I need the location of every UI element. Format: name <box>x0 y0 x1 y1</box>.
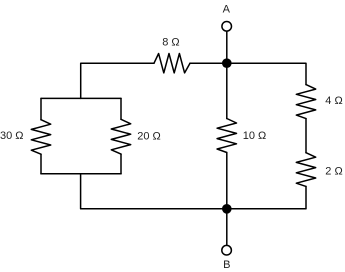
junction node B (solder dot) <box>222 204 232 214</box>
terminal B circle <box>222 245 232 255</box>
wire top lead of 30-ohm <box>40 98 42 119</box>
wire from 8-ohm right end to node A junction <box>190 62 227 64</box>
svg-text:8 Ω: 8 Ω <box>162 37 179 49</box>
svg-text:30 Ω: 30 Ω <box>0 130 23 142</box>
resistor R 4 ohm (vertical) <box>296 85 315 119</box>
resistor R 2 ohm (vertical) <box>296 153 315 187</box>
svg-text:2 Ω: 2 Ω <box>325 166 342 178</box>
wire top lead of 10-ohm from node A junction <box>226 63 228 118</box>
wire bottom lead of 30-ohm <box>40 154 42 174</box>
wire bottom lead of 20-ohm <box>120 154 122 174</box>
resistor R 20 ohm (vertical) <box>111 119 130 154</box>
wire parallel top bus <box>41 97 121 99</box>
wire parallel bottom bus <box>41 173 121 175</box>
wire from 8-ohm left end to top-left corner down to parallel top bus <box>81 63 154 98</box>
wire from 2-ohm bottom to bottom-right corner to node B junction <box>227 186 306 208</box>
svg-text:B: B <box>223 259 230 271</box>
junction node A (solder dot) <box>222 58 232 68</box>
wire from node A junction to top-right corner down to 4-ohm top <box>227 63 306 84</box>
wire from terminal A circle down to node A junction <box>226 32 228 64</box>
resistor R 30 ohm (vertical) <box>31 120 50 155</box>
terminal A circle <box>222 22 232 32</box>
svg-text:A: A <box>223 4 231 16</box>
svg-text:20 Ω: 20 Ω <box>137 131 161 143</box>
wire top lead of 20-ohm <box>120 98 122 119</box>
wire bottom lead of 10-ohm to node B junction <box>226 153 228 209</box>
svg-text:4 Ω: 4 Ω <box>325 95 342 107</box>
wire from node B junction to bottom-left corner up to parallel bottom bus <box>81 174 227 209</box>
resistor R 8 ohm (horizontal) <box>154 54 190 73</box>
resistor R 10 ohm (vertical) <box>217 119 236 153</box>
wire from node B junction down to terminal B circle <box>226 209 228 245</box>
wire between 4-ohm and 2-ohm <box>305 119 307 153</box>
svg-text:10 Ω: 10 Ω <box>243 130 267 142</box>
